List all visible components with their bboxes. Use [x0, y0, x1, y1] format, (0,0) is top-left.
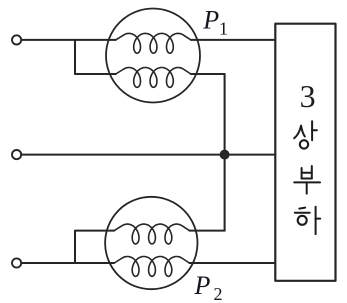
- terminal 2: [12, 150, 21, 159]
- wire line1 left: [22, 39, 116, 41]
- wire line3 right: [189, 262, 274, 264]
- wire branch2 vertical: [75, 231, 114, 263]
- svg-text:3: 3: [300, 78, 316, 114]
- load text hangul sang: [294, 121, 317, 148]
- wire line3 left: [22, 262, 115, 264]
- label P1: [202, 5, 228, 38]
- wire vertical bus: [224, 74, 226, 231]
- wire branch1 vertical: [75, 40, 116, 74]
- svg-text:P: P: [194, 271, 211, 300]
- wattmeter W2 circle: [105, 197, 197, 289]
- wire W2 potential to vertical: [189, 230, 224, 232]
- coil W1 current: [116, 33, 191, 53]
- coil W2 current: [114, 257, 189, 277]
- wire line1 right: [191, 39, 274, 41]
- load text hangul bu: [294, 166, 320, 194]
- wire line2: [22, 154, 275, 156]
- svg-text:1: 1: [219, 19, 228, 39]
- junction node: [220, 150, 230, 160]
- load box: [275, 24, 335, 281]
- coil W1 potential: [116, 68, 191, 88]
- terminal 3: [12, 258, 21, 267]
- svg-text:2: 2: [214, 284, 223, 303]
- label P2: [194, 271, 223, 303]
- load text hangul ha: [295, 207, 320, 234]
- wattmeter W1 circle: [106, 9, 200, 103]
- svg-text:P: P: [202, 5, 219, 34]
- terminal 1: [12, 35, 21, 44]
- wire W1 potential to vertical: [191, 73, 225, 75]
- coil W2 potential: [114, 224, 189, 244]
